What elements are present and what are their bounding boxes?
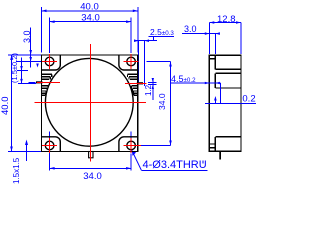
leader 4-Ø3.4THRU: [132, 151, 208, 172]
side view outline: [209, 55, 241, 151]
svg-text:4-Ø3.4THRU: 4-Ø3.4THRU: [143, 159, 207, 171]
dimension 2.5±0.3 right pin: [134, 27, 174, 86]
right terminal pin: [137, 82, 143, 84]
mounting hole bottom-left: [45, 141, 54, 150]
centerline vertical: [90, 44, 92, 152]
dimension 3.0 left (edge to hole center): [16, 28, 46, 68]
svg-text:40.0: 40.0: [0, 97, 11, 116]
dimension 34.0 right (hole spacing vertical): [139, 62, 172, 146]
svg-text:12.8: 12.8: [217, 14, 236, 25]
dimension 40.0 left (square height): [0, 55, 46, 152]
side view pin: [219, 151, 221, 159]
mounting hole top-right: [127, 57, 136, 66]
svg-text:34.0: 34.0: [157, 93, 167, 110]
dimension 40.0 top: [42, 1, 138, 52]
dimension 34.0 top (hole spacing): [50, 13, 132, 54]
leader 1.5x1.5 bottom left: [12, 140, 28, 185]
left pin centerline: [37, 81, 60, 83]
dimension 12.8 side view: [209, 14, 241, 54]
mounting hole top-left: [45, 57, 54, 66]
left terminal pin: [36, 81, 43, 83]
dimension 4.5±0.2 side view: [171, 74, 221, 103]
dimension 0.2 side view lip: [205, 93, 256, 104]
dimension 34.0 bottom: [50, 132, 132, 183]
corner pad top-left: [42, 55, 61, 70]
svg-text:0.2: 0.2: [242, 93, 255, 104]
horn step lines right edge: [128, 74, 138, 95]
front view square outline: [42, 55, 138, 152]
right pin centerline: [125, 82, 147, 84]
side view case lip: [215, 87, 241, 89]
side view flange pad top: [209, 55, 215, 69]
svg-text:3.0: 3.0: [184, 24, 197, 34]
crosshair hole top-left: [42, 54, 57, 69]
corner pad bottom-right: [119, 137, 138, 152]
centerline horizontal: [35, 101, 146, 103]
svg-text:1.5x1.5: 1.5x1.5: [12, 157, 21, 184]
side view pin extension mark: [202, 161, 204, 164]
side view case top edge: [215, 68, 241, 70]
crosshair hole bottom-right: [124, 138, 141, 153]
dimension 3.0 side view flange: [182, 24, 220, 54]
corner pad top-right: [119, 55, 138, 70]
side view case seam upper: [215, 73, 241, 88]
bottom pin centerline: [90, 152, 92, 162]
bottom terminal pin: [89, 152, 93, 158]
front view big circle (horn): [45, 58, 133, 146]
side view flange pad bottom: [209, 144, 215, 148]
side view case bottom edge: [215, 137, 241, 152]
crosshair hole top-right: [124, 54, 139, 69]
crosshair hole bottom-left: [42, 138, 57, 153]
svg-text:34.0: 34.0: [83, 171, 102, 182]
dimension (1.5±0.2) left pin: [10, 53, 36, 84]
mounting hole bottom-right: [127, 141, 136, 150]
dimension 1.2 right pin thickness: [144, 78, 157, 100]
svg-text:1.2: 1.2: [144, 84, 153, 96]
horn step lines left edge: [42, 74, 52, 95]
corner pad bottom-left: [42, 137, 61, 152]
